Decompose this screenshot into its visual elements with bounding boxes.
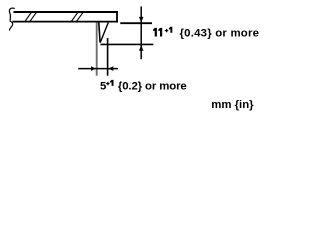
svg-text:{0.43} or more: {0.43} or more: [180, 28, 260, 40]
svg-text:5: 5: [100, 80, 107, 92]
svg-text:{0.2} or more: {0.2} or more: [118, 80, 187, 92]
svg-text:mm {in}: mm {in}: [211, 99, 254, 111]
